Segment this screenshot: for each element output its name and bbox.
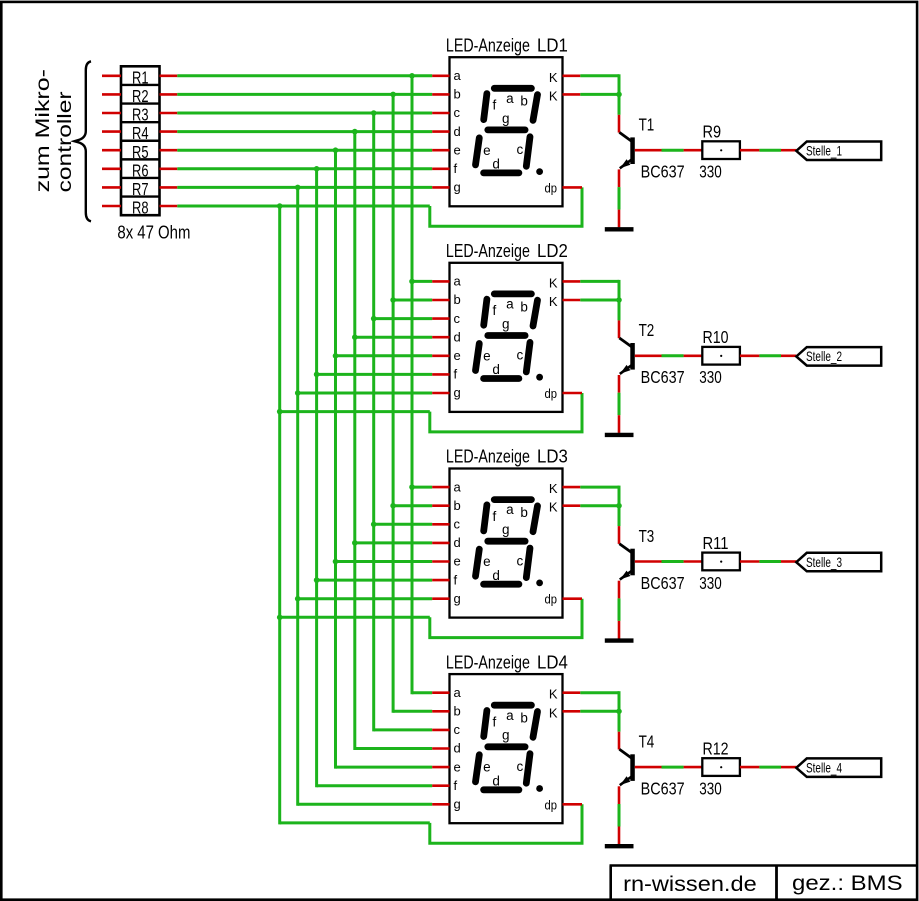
svg-text:330: 330: [699, 573, 722, 593]
junction d block 2: [352, 334, 358, 340]
transistor T3 BC637: [619, 544, 634, 580]
svg-text:R12: R12: [703, 739, 729, 759]
transistor T3 collector pin: [618, 526, 621, 544]
transistor T1 emitter pin: [618, 169, 621, 187]
svg-text:LD3: LD3: [537, 447, 568, 467]
svg-text:BC637: BC637: [641, 162, 685, 182]
LED display LD2: [450, 263, 563, 412]
transistor T2 collector pin: [618, 320, 621, 338]
ground pin: [618, 415, 621, 433]
resistor R2 right pin: [160, 93, 178, 96]
LD4 pin d: [432, 747, 449, 750]
junction e block 2: [333, 353, 339, 359]
wire base to R11: [662, 560, 684, 563]
connector pin: [781, 354, 796, 357]
junction b block 1: [390, 92, 396, 98]
junction K T4: [616, 709, 622, 715]
junction K T1: [616, 92, 622, 98]
LD4 pin dp: [563, 803, 583, 806]
svg-text:R8: R8: [132, 198, 149, 218]
svg-text:T3: T3: [639, 526, 655, 546]
LD4 pin K (bottom): [563, 710, 581, 713]
svg-text:d: d: [454, 124, 461, 139]
svg-text:330: 330: [699, 162, 722, 182]
svg-text:dp: dp: [545, 181, 558, 195]
svg-text:g: g: [502, 728, 510, 743]
wire vertical bus f: [315, 169, 318, 787]
wire K bus to T1: [580, 74, 619, 77]
wire emitter to ground: [618, 393, 621, 416]
junction d block 1: [352, 129, 358, 135]
svg-text:T2: T2: [639, 320, 655, 340]
wire branch e to LD3: [336, 560, 433, 563]
resistor R12 right pin: [740, 766, 760, 769]
LD4 pin b: [432, 710, 449, 713]
junction a block 3: [409, 484, 415, 490]
ground symbol under T3: [605, 638, 634, 642]
junction g block 2: [295, 390, 301, 396]
svg-text:LD4: LD4: [537, 652, 568, 672]
svg-text:Stelle_3: Stelle_3: [806, 555, 842, 570]
LD4 pin a: [432, 691, 449, 694]
LD2 segment letters: [483, 297, 528, 378]
svg-text:f: f: [454, 572, 458, 587]
junction a block 2: [409, 279, 415, 285]
LD4 pin g: [432, 803, 449, 806]
svg-text:d: d: [454, 535, 461, 550]
title block: [610, 866, 918, 901]
transistor T1 base pin: [635, 149, 662, 152]
LD4 pin c: [432, 729, 449, 732]
svg-text:b: b: [520, 94, 528, 109]
wire dp wrap to LD3: [280, 616, 430, 619]
junction c block 3: [371, 522, 377, 528]
ground pin: [618, 621, 621, 639]
resistor R8 left pin: [102, 205, 121, 208]
wire R10 to connector: [759, 354, 781, 357]
wire branch f to LD3: [317, 579, 433, 582]
svg-text:R6: R6: [132, 160, 149, 180]
wire vertical bus b: [392, 94, 395, 712]
LD1 pin c: [432, 112, 449, 115]
LD1 pin K (top): [563, 75, 581, 78]
junction b block 2: [390, 297, 396, 303]
transistor T3 base pin: [635, 560, 662, 563]
wire branch a to LD4: [412, 691, 432, 694]
resistor R3 left pin: [102, 112, 121, 115]
wire branch c to LD2: [374, 317, 433, 320]
wire branch b to LD3: [393, 504, 432, 507]
wire branch b to LD4: [393, 710, 432, 713]
svg-text:rn-wissen.de: rn-wissen.de: [623, 872, 757, 896]
svg-text:e: e: [483, 554, 491, 569]
LD1 pin a: [432, 75, 449, 78]
wire branch a to LD3: [412, 486, 432, 489]
wire segment row d (R4 to LD1 pin): [177, 130, 432, 133]
resistor R9 left pin: [684, 149, 703, 152]
wire branch d to LD4: [355, 747, 432, 750]
svg-text:e: e: [483, 760, 491, 775]
svg-text:g: g: [454, 180, 461, 195]
svg-text:R4: R4: [132, 123, 149, 143]
svg-text:e: e: [454, 142, 461, 157]
LD3 pin a: [432, 486, 449, 489]
svg-text:R10: R10: [703, 327, 729, 347]
LD3 segment letters: [483, 502, 528, 583]
LD1 pin K (bottom): [563, 93, 581, 96]
ground symbol under T1: [605, 227, 634, 231]
LD4 pin e: [432, 766, 449, 769]
svg-text:d: d: [454, 329, 461, 344]
wire segment row c (R3 to LD1 pin): [177, 112, 432, 115]
svg-text:R11: R11: [703, 533, 729, 553]
wire K bus to T2: [580, 280, 619, 283]
resistor R10 left pin: [684, 354, 703, 357]
wire emitter to ground: [618, 187, 621, 210]
wire branch g to LD2: [298, 392, 433, 395]
resistor R12 left pin: [684, 766, 703, 769]
svg-text:BC637: BC637: [641, 573, 685, 593]
svg-text:g: g: [502, 111, 510, 126]
wire vertical bus e: [334, 150, 337, 768]
brace: [75, 61, 92, 221]
LD1 segment letters: [483, 91, 528, 172]
transistor T4 emitter pin: [618, 786, 621, 804]
svg-text:K: K: [549, 500, 558, 515]
LD3 pin g: [432, 597, 449, 600]
wire R9 to connector: [759, 149, 781, 152]
junction f block 3: [314, 577, 320, 583]
LED display LD1: [450, 57, 563, 206]
wire segment row f (R6 to LD1 pin): [177, 167, 432, 170]
svg-text:e: e: [483, 143, 491, 158]
junction d block 3: [352, 540, 358, 546]
svg-text:K: K: [549, 70, 558, 85]
LD4 pin K (top): [563, 691, 581, 694]
ground pin: [618, 827, 621, 845]
svg-text:LED-Anzeige: LED-Anzeige: [446, 241, 530, 261]
wire dp wrap to LD1: [430, 187, 582, 226]
LD2 pin d: [432, 336, 449, 339]
wire vertical bus g: [296, 187, 299, 805]
resistor R1 left pin: [102, 75, 121, 78]
wire dp wrap to LD4: [280, 821, 430, 824]
svg-text:a: a: [454, 479, 462, 494]
svg-text:f: f: [454, 367, 458, 382]
wire emitter to ground: [618, 804, 621, 827]
svg-text:c: c: [517, 348, 524, 363]
svg-text:d: d: [492, 568, 500, 583]
wire branch g to LD3: [298, 597, 433, 600]
transistor T4 base pin: [635, 766, 662, 769]
wire branch e to LD2: [336, 354, 433, 357]
LD2 pin c: [432, 317, 449, 320]
svg-text:gez.: BMS: gez.: BMS: [792, 871, 903, 895]
svg-text:LED-Anzeige: LED-Anzeige: [446, 447, 530, 467]
resistor R7 left pin: [102, 186, 121, 189]
transistor T4 collector pin: [618, 732, 621, 750]
svg-text:b: b: [520, 505, 528, 520]
svg-text:R9: R9: [703, 122, 722, 142]
svg-text:dp: dp: [545, 387, 558, 401]
transistor T2 emitter pin: [618, 375, 621, 393]
svg-text:d: d: [492, 157, 500, 172]
wire vertical bus a: [411, 76, 414, 694]
wire branch b to LD2: [393, 299, 432, 302]
resistor R11 left pin: [684, 560, 703, 563]
junction a block 1: [409, 73, 415, 79]
junction c block 1: [371, 110, 377, 116]
svg-text:c: c: [517, 142, 524, 157]
svg-text:a: a: [506, 91, 514, 106]
resistor R12: [702, 758, 740, 776]
wire emitter to ground: [618, 598, 621, 621]
LD3 seven-segment glyph: [476, 500, 538, 585]
svg-text:c: c: [454, 311, 461, 326]
junction dp block 1: [277, 203, 283, 209]
transistor T4 BC637: [619, 749, 634, 785]
svg-text:K: K: [549, 275, 558, 290]
resistor R5 right pin: [160, 149, 178, 152]
svg-text:a: a: [454, 274, 462, 289]
svg-text:e: e: [454, 554, 461, 569]
wire vertical bus c: [372, 113, 375, 731]
svg-text:c: c: [454, 105, 461, 120]
svg-text:g: g: [454, 591, 461, 606]
resistor R4 right pin: [160, 130, 178, 133]
svg-text:R7: R7: [132, 179, 149, 199]
svg-text:g: g: [502, 316, 510, 331]
LD1 seven-segment glyph: [476, 88, 538, 173]
svg-text:dp: dp: [545, 798, 558, 812]
svg-text:e: e: [454, 759, 461, 774]
svg-text:d: d: [454, 741, 461, 756]
svg-text:f: f: [454, 161, 458, 176]
svg-text:LED-Anzeige: LED-Anzeige: [446, 35, 530, 55]
junction dp block 3: [277, 615, 283, 621]
LD2 pin a: [432, 280, 449, 283]
svg-text:f: f: [493, 303, 497, 318]
LD2 pin e: [432, 354, 449, 357]
LD2 pin b: [432, 299, 449, 302]
wire base to R9: [662, 149, 684, 152]
svg-text:d: d: [492, 774, 500, 789]
resistor R10 right pin: [740, 354, 760, 357]
wire branch a to LD2: [412, 280, 432, 283]
transistor T2 BC637: [619, 338, 634, 374]
wire base to R12: [662, 766, 684, 769]
resistor array R1-R8: [121, 66, 160, 215]
connector pin: [781, 766, 796, 769]
LD1 pin b: [432, 93, 449, 96]
junction dp block 2: [277, 409, 283, 415]
wire branch d to LD3: [355, 541, 432, 544]
LD2 pin g: [432, 392, 449, 395]
LED display LD4: [450, 674, 563, 823]
svg-text:f: f: [454, 778, 458, 793]
svg-text:T4: T4: [639, 732, 655, 752]
junction g block 1: [295, 185, 301, 191]
wire base to R10: [662, 354, 684, 357]
connector pin: [781, 149, 796, 152]
LD1 pin dp: [563, 186, 583, 189]
svg-text:f: f: [493, 98, 497, 113]
connector flag Stelle_2: [796, 347, 881, 366]
junction K T2: [616, 297, 622, 303]
svg-text:LD2: LD2: [537, 241, 568, 261]
svg-text:a: a: [506, 297, 514, 312]
wire branch d to LD2: [355, 336, 432, 339]
resistor R6 right pin: [160, 168, 178, 171]
svg-text:b: b: [454, 292, 461, 307]
svg-text:g: g: [454, 385, 461, 400]
svg-text:T1: T1: [639, 115, 655, 135]
svg-text:LD1: LD1: [537, 35, 568, 55]
svg-text:Stelle_4: Stelle_4: [806, 760, 842, 775]
LD3 pin K (top): [563, 486, 581, 489]
svg-text:b: b: [454, 704, 461, 719]
svg-text:LED-Anzeige: LED-Anzeige: [446, 652, 530, 672]
junction e block 3: [333, 559, 339, 565]
resistor R9: [702, 141, 740, 159]
LD3 pin d: [432, 542, 449, 545]
LD1 pin d: [432, 130, 449, 133]
wire branch c to LD3: [374, 523, 433, 526]
svg-text:R5: R5: [132, 142, 149, 162]
svg-text:a: a: [506, 502, 514, 517]
wire K bus to T3: [580, 486, 619, 489]
wire segment row b (R2 to LD1 pin): [177, 93, 432, 96]
LD3 pin dp: [563, 597, 583, 600]
LD2 pin dp: [563, 392, 583, 395]
svg-text:c: c: [454, 517, 461, 532]
LD4 segment letters: [483, 708, 528, 789]
svg-text:a: a: [454, 685, 462, 700]
svg-text:330: 330: [699, 779, 722, 799]
resistor R10: [702, 347, 740, 365]
label: zum Mikro-controller: [32, 69, 76, 192]
resistor R4 left pin: [102, 130, 121, 133]
svg-text:K: K: [549, 88, 558, 103]
svg-text:Stelle_2: Stelle_2: [806, 349, 842, 364]
wire K bus to T4: [580, 691, 619, 694]
resistor R11: [702, 553, 740, 571]
svg-text:b: b: [520, 299, 528, 314]
LD3 pin f: [432, 579, 449, 582]
svg-text:f: f: [493, 714, 497, 729]
transistor T1 BC637: [619, 132, 634, 168]
connector flag Stelle_4: [796, 758, 881, 777]
resistor R2 left pin: [102, 93, 121, 96]
resistor R11 right pin: [740, 560, 760, 563]
connector flag Stelle_3: [796, 553, 881, 572]
svg-text:dp: dp: [545, 593, 558, 607]
svg-text:330: 330: [699, 367, 722, 387]
ground symbol under T2: [605, 433, 634, 437]
wire R11 to connector: [759, 560, 781, 563]
junction f block 2: [314, 372, 320, 378]
svg-text:8x 47 Ohm: 8x 47 Ohm: [117, 223, 190, 243]
LD3 pin b: [432, 504, 449, 507]
resistor R6 left pin: [102, 168, 121, 171]
transistor T2 base pin: [635, 354, 662, 357]
svg-text:R3: R3: [132, 105, 149, 125]
svg-text:BC637: BC637: [641, 779, 685, 799]
svg-text:c: c: [517, 759, 524, 774]
ground symbol under T4: [605, 844, 634, 848]
svg-text:e: e: [454, 348, 461, 363]
junction b block 3: [390, 503, 396, 509]
resistor R9 right pin: [740, 149, 760, 152]
LD4 pin f: [432, 784, 449, 787]
wire dp wrap to LD2: [280, 410, 430, 413]
wire segment row a (R1 to LD1 pin): [177, 74, 432, 77]
transistor T1 collector pin: [618, 115, 621, 133]
LD1 pin e: [432, 149, 449, 152]
wire branch f to LD4: [317, 784, 433, 787]
svg-text:K: K: [549, 294, 558, 309]
svg-text:K: K: [549, 705, 558, 720]
resistor R1 right pin: [160, 75, 178, 78]
svg-text:R2: R2: [132, 86, 149, 106]
svg-text:K: K: [549, 481, 558, 496]
LD2 seven-segment glyph: [476, 294, 538, 379]
svg-text:zum Mikro-: zum Mikro-: [32, 69, 54, 192]
connector pin: [781, 560, 796, 563]
junction e block 1: [333, 147, 339, 153]
wire branch e to LD4: [336, 766, 433, 769]
resistor R5 left pin: [102, 149, 121, 152]
wire segment row e (R5 to LD1 pin): [177, 149, 432, 152]
wire branch f to LD2: [317, 373, 433, 376]
LD3 pin K (bottom): [563, 504, 581, 507]
LD4 seven-segment glyph: [476, 705, 538, 790]
wire segment row g (R7 to LD1 pin): [177, 186, 432, 189]
LD2 pin K (top): [563, 280, 581, 283]
resistor R7 right pin: [160, 186, 178, 189]
wire vertical bus d: [353, 132, 356, 750]
ground pin: [618, 210, 621, 228]
svg-text:c: c: [517, 553, 524, 568]
resistor R8 right pin: [160, 205, 178, 208]
wire branch g to LD4: [298, 803, 433, 806]
svg-text:R1: R1: [132, 67, 149, 87]
svg-text:b: b: [454, 87, 461, 102]
junction c block 2: [371, 316, 377, 322]
junction f block 1: [314, 166, 320, 172]
LD3 pin e: [432, 560, 449, 563]
svg-text:d: d: [492, 362, 500, 377]
svg-text:a: a: [454, 68, 462, 83]
svg-text:b: b: [454, 498, 461, 513]
resistor R3 right pin: [160, 112, 178, 115]
junction g block 3: [295, 596, 301, 602]
LED display LD3: [450, 469, 563, 618]
connector flag Stelle_1: [796, 142, 881, 161]
junction K T3: [616, 503, 622, 509]
svg-text:g: g: [454, 797, 461, 812]
transistor T3 emitter pin: [618, 581, 621, 599]
svg-text:K: K: [549, 687, 558, 702]
wire vertical bus dp: [278, 206, 281, 824]
wire R12 to connector: [759, 766, 781, 769]
LD2 pin f: [432, 373, 449, 376]
svg-text:g: g: [502, 522, 510, 537]
svg-text:c: c: [454, 722, 461, 737]
svg-text:f: f: [493, 509, 497, 524]
LD1 pin f: [432, 168, 449, 171]
wire segment row dp (R8): [177, 205, 429, 208]
